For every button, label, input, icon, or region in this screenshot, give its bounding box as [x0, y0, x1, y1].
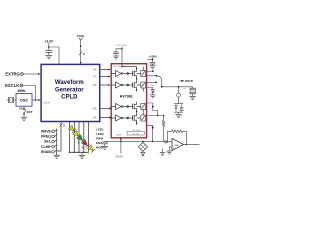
bus slash 8: [79, 52, 82, 56]
diode bridge: [142, 141, 144, 142]
CPLD U1 box: [41, 64, 100, 121]
svg-text:SEL: SEL: [44, 140, 52, 144]
svg-text:CLMP: CLMP: [41, 145, 52, 149]
op-amp U2: [172, 138, 183, 150]
svg-text:JTAG: JTAG: [77, 34, 85, 38]
junction dots on LED return bus: [69, 152, 85, 153]
svg-text:TP1 GND: TP1 GND: [132, 130, 141, 132]
LED D1 yellow: [66, 125, 76, 135]
node clock junction: [35, 99, 37, 101]
lower wires out of HV7361: [147, 103, 157, 116]
ground: [113, 56, 119, 59]
switch ON/EXT below OSC: [23, 106, 25, 108]
arrowhead into CPLD clock pin: [38, 99, 41, 101]
wire from box bottom to 24.0V label: [120, 138, 122, 154]
LED D3 green: [75, 135, 85, 145]
svg-text:EXCLK: EXCLK: [5, 83, 19, 88]
capacitor C1: [45, 50, 52, 52]
ground: [45, 55, 52, 58]
HV7361 red box: [111, 64, 146, 138]
svg-text:Waveform: Waveform: [55, 80, 84, 86]
wire JTAG to CPLD: [80, 40, 82, 65]
capacitor to ground left: [104, 140, 106, 142]
LED D5 yellow: [85, 145, 95, 155]
svg-text:+3.3V VDDL: +3.3V VDDL: [115, 45, 128, 47]
svg-text:ON: ON: [19, 108, 23, 110]
arrowhead into CPLD: [38, 73, 41, 75]
wire OSC out to CPLD: [32, 99, 39, 101]
svg-text:EXTRG: EXTRG: [5, 71, 19, 76]
svg-text:GA-G: GA-G: [116, 133, 122, 136]
svg-text:PE: PE: [93, 68, 97, 71]
ground: [79, 155, 85, 158]
svg-text:LNA: LNA: [174, 144, 179, 147]
svg-text:LED1: LED1: [96, 127, 104, 131]
ground near input cap: [160, 153, 165, 156]
bottom small box in HV7361: [127, 131, 144, 135]
driver ch2: [111, 82, 121, 88]
CPLD title text: [55, 80, 84, 100]
capacitor C3: [150, 61, 156, 63]
svg-text:Generator: Generator: [55, 88, 84, 94]
svg-text:HV7361: HV7361: [120, 95, 133, 99]
mosfet Q1: [132, 71, 134, 76]
svg-text:MD: MD: [93, 84, 97, 87]
svg-text:WAVE: WAVE: [41, 130, 52, 134]
ground: [21, 117, 27, 120]
wire pin to +100V rail: [147, 70, 153, 72]
svg-text:MOD: MOD: [96, 145, 104, 149]
svg-text:CPLD: CPLD: [61, 95, 78, 101]
svg-text:EXT: EXT: [27, 110, 33, 114]
internal rails: [136, 67, 138, 69]
svg-text:4MHz: 4MHz: [17, 89, 26, 93]
output wire from HV7361: [147, 75, 157, 77]
diode clamp to ground: [147, 88, 153, 90]
LED D2 yellow: [71, 131, 81, 141]
crystal X1: [8, 97, 10, 103]
svg-text:+100V: +100V: [148, 55, 157, 59]
RX rail below HV7361: [105, 140, 164, 142]
wire +3.3V to CPLD: [49, 47, 59, 65]
XDCR label and arrow: [181, 80, 184, 82]
wire LED bus to ground: [81, 152, 83, 155]
wire EXCLK: [23, 86, 36, 101]
svg-text:-: -: [173, 140, 174, 144]
svg-text:ENAB: ENAB: [41, 150, 51, 154]
svg-text:+3.3V: +3.3V: [45, 39, 54, 43]
svg-text:XDCR: XDCR: [185, 79, 193, 83]
svg-text:D6: D6: [182, 110, 184, 112]
DIP switch inputs WAVE FREQ SEL CLMP ENAB: [41, 130, 52, 154]
svg-text:24.0V: 24.0V: [116, 155, 123, 159]
svg-text:WA: WA: [93, 108, 97, 111]
TR limiter branch with circle symbol: [178, 87, 180, 93]
node on JTAG line: [80, 45, 82, 47]
LED labels: [96, 127, 104, 149]
LED wires from CPLD bottom: [70, 122, 89, 153]
switch common line to ground: [56, 129, 58, 155]
wire op-amp +input to ground: [169, 147, 172, 151]
mosfet Q2: [132, 82, 134, 87]
switch connectors and arms: [52, 129, 57, 153]
coupling capacitor: [164, 141, 165, 143]
op-amp output wire: [183, 143, 199, 145]
transducer: [192, 87, 194, 89]
resistor R1 vertical: [163, 116, 165, 121]
mosfet Q3: [132, 104, 134, 109]
svg-text:0.1uF: 0.1uF: [149, 85, 155, 87]
svg-text:D5, D6: D5, D6: [133, 133, 139, 135]
driver ch4: [111, 115, 121, 121]
channel drivers and MOSFETs: [111, 63, 146, 125]
driver ch3: [111, 103, 121, 109]
wire stub to ground: [162, 149, 164, 153]
svg-text:ENA: ENA: [96, 141, 103, 145]
capacitor C2: [116, 49, 122, 52]
bus from CPLD bottom (5): [57, 122, 61, 152]
diodes D5 D6: [174, 103, 183, 105]
feedback resistor R2: [168, 131, 172, 142]
mosfet Q4: [132, 115, 134, 120]
wire EXTRG: [23, 73, 39, 75]
wires CPLD to HV7361: [101, 70, 110, 118]
JTAG connector: [79, 38, 83, 41]
wire from HV7361 right pin down to RX rail: [147, 125, 153, 141]
svg-text:PC: PC: [93, 75, 97, 78]
ground: [150, 66, 156, 69]
svg-text:NA: NA: [93, 117, 97, 120]
svg-text:PWR: PWR: [96, 136, 104, 140]
LED D4 red: [80, 140, 90, 150]
svg-text:LED2: LED2: [96, 132, 104, 136]
junction dots inside HV7361: [121, 66, 137, 124]
CPLD pin labels: [93, 68, 97, 119]
svg-text:CLKin: CLKin: [44, 102, 51, 104]
svg-text:FREQ: FREQ: [41, 135, 51, 139]
arrowheads and dots into HV7361: [108, 69, 111, 119]
ground: [166, 151, 172, 154]
svg-text:OSC: OSC: [20, 97, 29, 102]
driver ch1: [111, 70, 121, 76]
oscillator OSC box: [16, 94, 32, 107]
